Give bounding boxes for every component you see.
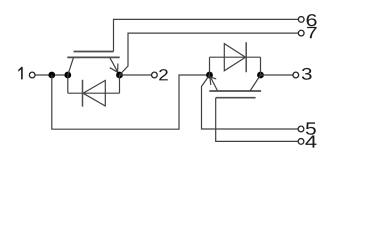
diode D2 cathode bar <box>245 42 247 72</box>
transistor Q1 emitter arrow <box>110 64 118 73</box>
transistor Q2 emitter lead <box>210 76 218 91</box>
node C2 junction dot <box>257 72 264 79</box>
terminal 1 <box>29 72 35 78</box>
wire node E1 to terminal 2 <box>120 74 152 76</box>
transistor Q2 collector lead <box>250 75 261 91</box>
terminal 7 <box>298 30 304 36</box>
diode D1 cathode leg to node B <box>67 75 69 93</box>
transistor Q2 gate lead <box>216 97 256 99</box>
node B junction dot <box>64 72 71 79</box>
diode D2 cathode leg to node C2 <box>260 57 262 75</box>
transistor Q1 collector lead <box>68 57 74 75</box>
diode D2 horizontal line <box>210 56 261 58</box>
diode D1 triangle <box>83 80 105 106</box>
diode D1 horizontal line <box>68 92 120 94</box>
transistor Q1 emitter lead <box>110 57 119 74</box>
node A junction dot <box>48 72 55 79</box>
wire gate Q1 to terminal 6 <box>114 19 299 51</box>
node E1 junction dot <box>116 72 123 79</box>
node E2 junction dot <box>206 72 213 79</box>
transistor Q2 emitter arrow <box>210 77 216 85</box>
diode D1 cathode bar <box>82 80 84 107</box>
label pin 6 <box>307 14 317 26</box>
wire gate Q2 to terminal 4 <box>216 98 299 142</box>
label pin 7 <box>307 27 316 38</box>
label pin 3 <box>302 68 312 80</box>
terminal 6 <box>298 17 304 23</box>
terminal 4 <box>298 139 304 145</box>
diode D2 triangle <box>224 44 245 71</box>
terminal 5 <box>298 126 304 132</box>
label pin 1 <box>18 67 22 80</box>
transistor Q2 bar <box>209 90 261 92</box>
label pin 5 <box>306 122 316 134</box>
transistor Q1 bar <box>67 56 119 58</box>
wire terminal1 to node B <box>35 74 68 76</box>
terminal 2 <box>152 72 158 78</box>
wire node E1 to terminal 7 <box>120 33 299 75</box>
wire node E2 to terminal 5 <box>202 75 299 129</box>
diode D1 anode leg from node E1 <box>119 75 121 93</box>
label pin 2 <box>159 69 168 80</box>
label pin 4 <box>305 135 316 147</box>
transistor Q1 gate lead <box>74 51 114 53</box>
wire node C2 to terminal 3 <box>261 74 294 76</box>
wire node A to emitter node E2 (bottom link) <box>52 75 210 129</box>
diode D2 anode leg from node E2 <box>209 57 211 75</box>
terminal 3 <box>293 72 299 78</box>
